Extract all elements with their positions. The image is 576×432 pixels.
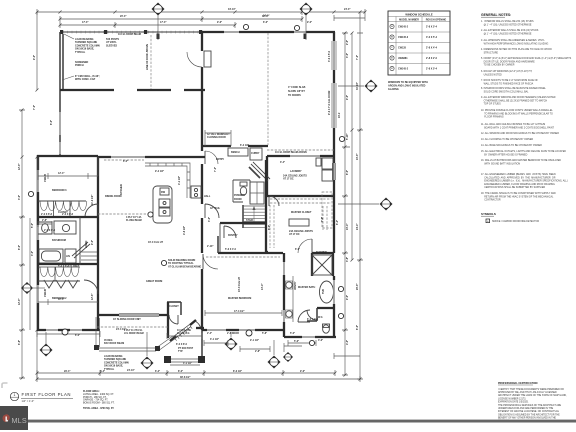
svg-text:2'-0 X 6'-8: 2'-0 X 6'-8 xyxy=(44,229,56,232)
svg-text:5'-4": 5'-4" xyxy=(100,370,105,373)
svg-text:OBLIGATION IS ASSUMED BY T: OBLIGATION IS ASSUMED BY THE ARCHITECT F… xyxy=(498,413,560,416)
svg-text:CW145: CW145 xyxy=(44,173,47,182)
master bath shower xyxy=(312,253,333,276)
svg-text:13'-4": 13'-4" xyxy=(261,284,264,291)
svg-text:DOOR STYLE, DOOR FINISH AND HA: DOOR STYLE, DOOR FINISH AND HARDWARE xyxy=(481,60,535,63)
extra short dim lines xyxy=(38,130,360,359)
svg-text:7'-2": 7'-2" xyxy=(214,167,217,172)
laundry door arc xyxy=(269,196,279,206)
svg-text:OTHERWISE SHALL BE (2) 2X10 FR: OTHERWISE SHALL BE (2) 2X10 FRAMED SET T… xyxy=(481,99,547,102)
svg-text:5'-0": 5'-0" xyxy=(290,332,295,335)
svg-text:CW135: CW135 xyxy=(398,47,407,50)
dimension labels left (rotated) xyxy=(18,55,53,305)
svg-text:UNLESS NOTED: UNLESS NOTED xyxy=(481,74,502,76)
freestanding tub xyxy=(320,281,334,303)
svg-text:6'-0": 6'-0" xyxy=(295,248,300,251)
porch bottom wall xyxy=(60,89,205,91)
wall between bed3 and bath xyxy=(38,216,98,218)
svg-text:DINING ROOM: DINING ROOM xyxy=(105,195,121,198)
svg-text:STRUCTURE: STRUCTURE xyxy=(481,52,498,54)
svg-text:W.C.: W.C. xyxy=(318,316,324,319)
svg-text:KITCHEN: KITCHEN xyxy=(120,184,123,195)
svg-text:ARGON AND LOW-E INSULATED: ARGON AND LOW-E INSULATED xyxy=(388,85,426,88)
column note bottom xyxy=(104,355,129,371)
master bedroom top wall xyxy=(218,252,333,254)
window schedule table xyxy=(388,11,450,75)
svg-text:5'-8": 5'-8" xyxy=(262,332,267,335)
svg-text:SMOKE / CARBON MONOXIDE DETECT: SMOKE / CARBON MONOXIDE DETECTOR xyxy=(492,220,539,223)
svg-text:ENGINEERED LUMBER, FLOOR FRAMI: ENGINEERED LUMBER, FLOOR FRAMING AND ROO… xyxy=(481,183,555,186)
dimension labels bottom xyxy=(62,328,305,379)
linen closet xyxy=(65,249,76,263)
svg-text:CW145: CW145 xyxy=(44,288,47,297)
window labels on plan xyxy=(44,173,239,335)
bath/bed2 dividing wall xyxy=(38,263,98,265)
svg-text:9'-6": 9'-6" xyxy=(300,370,305,373)
svg-text:CUBBY: CUBBY xyxy=(251,152,260,155)
garage right wall with windows xyxy=(332,32,336,157)
master closet door xyxy=(298,239,312,253)
master bedroom ceiling dashed xyxy=(206,256,280,258)
svg-text:CW145-3: CW145-3 xyxy=(398,36,409,39)
svg-text:6'-8": 6'-8" xyxy=(18,340,21,345)
svg-text:17'-0": 17'-0" xyxy=(82,21,89,24)
section marker bottom 1 xyxy=(40,344,53,357)
svg-text:SHOWER: SHOWER xyxy=(316,251,327,254)
angled pantry double doors xyxy=(249,162,270,181)
svg-text:FIRST FLOOR PLAN: FIRST FLOOR PLAN xyxy=(22,392,72,397)
keynote circle right wall a xyxy=(338,286,343,291)
keynote circle right wall b xyxy=(338,313,343,318)
section marker bedroom 2 xyxy=(21,282,33,294)
svg-text:3'-0": 3'-0" xyxy=(31,251,34,256)
svg-text:12'-4": 12'-4" xyxy=(58,298,65,301)
svg-text:WINDOWS TO BE EQUIPPED WITH: WINDOWS TO BE EQUIPPED WITH xyxy=(388,81,428,84)
bedroom 3 door xyxy=(85,204,98,217)
svg-text:2'-6": 2'-6" xyxy=(346,40,349,45)
svg-text:11'-2 1/2": 11'-2 1/2" xyxy=(91,195,94,205)
svg-text:5'-0": 5'-0" xyxy=(31,223,34,228)
svg-text:12. ALL WINDOW AND DOOR MOULDI: 12. ALL WINDOW AND DOOR MOULDINGS TO BE … xyxy=(481,132,559,135)
svg-text:5'-6": 5'-6" xyxy=(294,340,299,343)
door: porch to garage xyxy=(187,51,211,67)
svg-text:17'-0": 17'-0" xyxy=(160,21,167,24)
svg-text:9'-6": 9'-6" xyxy=(33,55,36,60)
svg-text:4'-1 1/2": 4'-1 1/2" xyxy=(178,176,181,185)
svg-text:10. PROVIDE DOUBLE FLOOR JOIST: 10. PROVIDE DOUBLE FLOOR JOISTS UNDER WA… xyxy=(481,109,553,112)
hall door to great room xyxy=(205,204,219,218)
svg-text:4'-0 X 5'-4: 4'-0 X 5'-4 xyxy=(426,36,438,39)
svg-text:6'-0 X 8'-0: 6'-0 X 8'-0 xyxy=(176,343,188,346)
professional certification body xyxy=(498,388,567,423)
svg-text:2'-8 X 2'-0: 2'-8 X 2'-0 xyxy=(426,57,438,60)
svg-text:POWDER: POWDER xyxy=(234,194,245,197)
keynote circle bottom 1 xyxy=(62,329,68,335)
svg-text:TYP: TYP xyxy=(178,350,183,353)
stair closet xyxy=(250,182,264,204)
svg-text:TO FRAMING AND BLOCKING AT WAL: TO FRAMING AND BLOCKING AT WALLS PERPEND… xyxy=(481,112,553,115)
svg-text:9'-0 X 7'-0 O.H. DOOR: 9'-0 X 7'-0 O.H. DOOR xyxy=(328,90,331,115)
section marker right side xyxy=(365,80,378,93)
svg-text:INTEREST OF GRAYNE LUCCHESE: INTEREST OF GRAYNE LUCCHESE. NO CONTRACT… xyxy=(498,410,560,413)
svg-text:LINE OF ROOF ABOVE: LINE OF ROOF ABOVE xyxy=(146,44,149,70)
master bedroom left wall xyxy=(201,269,203,330)
leader lines porch xyxy=(62,34,74,80)
svg-text:24'-10": 24'-10" xyxy=(127,369,135,372)
svg-text:CLOSET: CLOSET xyxy=(169,305,179,308)
svg-text:24'-4": 24'-4" xyxy=(356,224,359,231)
svg-text:2. ALL EXTERIOR WALLS SHALL BE: 2. ALL EXTERIOR WALLS SHALL BE 2X6 (24) … xyxy=(481,29,539,32)
svg-text:FLOOR FRAMING: FLOOR FRAMING xyxy=(481,116,504,119)
svg-text:CERTIFICATIONS SHALL BE SUBMIT: CERTIFICATIONS SHALL BE SUBMITTED BY SUP… xyxy=(481,186,545,189)
pantry walls xyxy=(220,222,265,224)
svg-text:WITH SOUND BATT INSULATION: WITH SOUND BATT INSULATION xyxy=(481,162,520,165)
dimension line: bottom overall xyxy=(37,331,360,382)
svg-text:7'-2": 7'-2" xyxy=(356,55,359,60)
svg-text:BY OWNER AFTER HOUSE IS FRAMED: BY OWNER AFTER HOUSE IS FRAMED xyxy=(481,153,528,156)
ovens xyxy=(191,186,201,198)
svg-text:20'-0": 20'-0" xyxy=(356,284,359,291)
svg-text:8. INTERIOR DOORS SHALL BE MAS: 8. INTERIOR DOORS SHALL BE MASONITE RAIS… xyxy=(481,87,547,90)
svg-text:VANITY: VANITY xyxy=(294,281,297,290)
garage note text xyxy=(288,86,306,97)
keynote circle left xyxy=(28,191,33,196)
keynote circle top b xyxy=(294,25,299,30)
svg-text:BONUS ROOM - 380 SQ. FT.: BONUS ROOM - 380 SQ. FT. xyxy=(83,401,115,404)
svg-text:LIN: LIN xyxy=(66,255,70,258)
garage bottom wall / mudroom top xyxy=(202,145,268,147)
svg-text:6'-0": 6'-0" xyxy=(123,160,128,163)
svg-text:BENEFIT OF ANY OTHER PERSO: BENEFIT OF ANY OTHER PERSON INVOLVED IN … xyxy=(498,416,556,419)
svg-text:MASTER BATH: MASTER BATH xyxy=(298,286,315,289)
svg-text:GENERAL NOTES:: GENERAL NOTES: xyxy=(481,13,511,17)
svg-text:8'-0": 8'-0" xyxy=(178,370,183,373)
svg-text:SOLID CORE SMOOTH (COLONIAL),: SOLID CORE SMOOTH (COLONIAL), BAL xyxy=(481,90,529,93)
svg-text:MLS: MLS xyxy=(12,416,27,425)
svg-text:9'-1 1/2": 9'-1 1/2" xyxy=(250,339,259,342)
svg-text:PROFESSIONAL CERTIFICATION: PROFESSIONAL CERTIFICATION xyxy=(498,382,538,385)
svg-text:AWN281: AWN281 xyxy=(398,57,408,60)
svg-text:9'-6": 9'-6" xyxy=(91,240,94,245)
hall west wall xyxy=(201,147,203,253)
svg-text:2'-4": 2'-4" xyxy=(207,332,212,335)
svg-text:18. THE CRAWL SPACE IS TO BE C: 18. THE CRAWL SPACE IS TO BE CONDITIONED… xyxy=(481,192,556,195)
svg-text:5'-6 X 4'-0: 5'-6 X 4'-0 xyxy=(225,248,237,251)
svg-text:STAIR: STAIR xyxy=(246,219,253,222)
svg-text:ARCHITECT UNDER THE LAWS OF TH: ARCHITECT UNDER THE LAWS OF THE STATE OF… xyxy=(498,394,567,397)
entry hall left wall xyxy=(167,302,169,338)
sheet bottom border xyxy=(28,420,576,423)
svg-text:11. ALL WALL AND CEILING FINIS: 11. ALL WALL AND CEILING FINISHES TO BE … xyxy=(481,123,545,126)
master bath right wall xyxy=(333,196,335,338)
window schedule note xyxy=(388,81,428,91)
svg-text:10'-4": 10'-4" xyxy=(346,224,349,231)
svg-text:2'-8 X 5'-4: 2'-8 X 5'-4 xyxy=(426,26,438,29)
svg-text:42" RAIL: 42" RAIL xyxy=(210,207,221,210)
master bedroom bottom wall xyxy=(202,329,284,331)
powder room xyxy=(233,180,250,202)
svg-text:TYPICAL: TYPICAL xyxy=(75,51,86,54)
dimension labels top xyxy=(82,8,351,24)
bath door xyxy=(298,310,310,322)
svg-text:MODEL NUMBER: MODEL NUMBER xyxy=(399,18,419,21)
porch notes xyxy=(75,38,119,81)
svg-text:8'-6": 8'-6" xyxy=(50,120,53,125)
porch left CMU wall xyxy=(60,32,63,92)
bedroom wing left wall with windows xyxy=(37,156,39,330)
svg-text:MASTER CLOSET: MASTER CLOSET xyxy=(291,211,312,214)
master bedroom right wall xyxy=(283,253,285,337)
master bath bottom wall xyxy=(284,336,336,338)
section marker A1 top left xyxy=(152,3,165,16)
svg-text:2'-8 X 4'-4: 2'-8 X 4'-4 xyxy=(426,47,438,50)
svg-text:12'-6": 12'-6" xyxy=(91,294,94,301)
section marker bottom 4 xyxy=(268,356,281,369)
svg-text:SYMBOLS: SYMBOLS xyxy=(481,212,496,216)
staircase xyxy=(243,160,266,252)
drop beam dashed over kitchen xyxy=(267,149,334,151)
svg-text:4'-8 1/2": 4'-8 1/2" xyxy=(183,226,186,235)
bathtub xyxy=(39,249,63,263)
mudroom bench and cubbys xyxy=(228,148,262,160)
svg-text:4'-2": 4'-2" xyxy=(346,340,349,345)
svg-text:29'-4": 29'-4" xyxy=(64,370,71,373)
svg-text:ROOM: ROOM xyxy=(234,198,241,201)
great room door note xyxy=(168,259,201,268)
dimension line: overall width top xyxy=(37,9,365,28)
svg-text:16'-0 CLG HT: 16'-0 CLG HT xyxy=(148,241,163,244)
svg-text:3'-6": 3'-6" xyxy=(208,217,211,222)
bedroom 2 bifold doors xyxy=(44,280,78,288)
bedroom wing top wall xyxy=(37,155,98,157)
svg-text:2'-10": 2'-10" xyxy=(207,245,214,248)
dashed line of bonus room in garage xyxy=(267,33,269,145)
svg-text:11 X 9 CLG: 11 X 9 CLG xyxy=(177,332,190,335)
svg-text:ENGINEERED LUMBER (i.e. ILVL: ENGINEERED LUMBER (i.e. ILVL MANUFACTURE… xyxy=(481,180,568,183)
svg-text:3'-0 X 5'-0: 3'-0 X 5'-0 xyxy=(328,50,331,62)
bathroom door (angled) xyxy=(72,242,88,256)
svg-text:3'-0": 3'-0" xyxy=(18,195,21,200)
svg-text:AT 17 OC: AT 17 OC xyxy=(289,233,300,236)
svg-text:3'-0": 3'-0" xyxy=(346,53,349,58)
svg-text:PANTRY: PANTRY xyxy=(228,234,238,237)
svg-text:14. ALL BASE MOULDINGS TO BE C: 14. ALL BASE MOULDINGS TO BE CHOSEN BY O… xyxy=(481,144,542,147)
svg-text:MASTER BEDROOM: MASTER BEDROOM xyxy=(228,297,251,300)
svg-text:7'-0": 7'-0" xyxy=(33,105,36,110)
svg-text:12'-0": 12'-0" xyxy=(18,299,21,306)
svg-text:5'-0 X 6'-8 CLOSET: 5'-0 X 6'-8 CLOSET xyxy=(58,265,80,268)
svg-text:FLUSH BEAM: FLUSH BEAM xyxy=(126,219,142,222)
svg-text:4'-6": 4'-6" xyxy=(318,339,323,342)
line of bonus room above (dashed) xyxy=(150,35,152,89)
svg-text:ROUGH OPENING: ROUGH OPENING xyxy=(426,18,447,21)
svg-text:8'-0": 8'-0" xyxy=(18,245,21,250)
svg-text:@ 1' - 4" (16), UNLESS NOTED O: @ 1' - 4" (16), UNLESS NOTED OTHERWISE xyxy=(481,24,532,26)
angled front door xyxy=(170,320,201,346)
svg-text:2'-8 X 5'-4: 2'-8 X 5'-4 xyxy=(426,68,438,71)
extra rotated dims right side xyxy=(18,40,359,345)
svg-text:16'-2: 16'-2 xyxy=(338,112,341,118)
svg-text:LINEN: LINEN xyxy=(85,241,88,248)
svg-text:24'-0": 24'-0" xyxy=(263,15,270,18)
svg-text:6'-2 1/2": 6'-2 1/2" xyxy=(240,144,249,147)
master bedroom door xyxy=(203,254,218,269)
svg-text:BEDROOM 3: BEDROOM 3 xyxy=(52,189,67,192)
porch corner posts xyxy=(94,345,99,350)
MLS watermark box xyxy=(0,406,28,430)
dimension labels right (rotated) xyxy=(346,53,359,330)
kitchen upper cabinets dashed xyxy=(104,159,144,161)
section marker right mid xyxy=(380,198,393,211)
svg-text:I CERTIFY THAT THESE DOCUMENTS: I CERTIFY THAT THESE DOCUMENTS WERE PREP… xyxy=(498,388,564,391)
svg-text:34'-10": 34'-10" xyxy=(228,8,236,11)
svg-text:8'-6": 8'-6" xyxy=(356,325,359,330)
section marker bottom 5 xyxy=(283,352,293,362)
keynote circle kitchen xyxy=(243,24,248,29)
svg-text:5'-10": 5'-10" xyxy=(346,134,349,141)
master bath vanity xyxy=(286,276,294,322)
svg-text:3'-8": 3'-8" xyxy=(346,257,349,262)
svg-text:1. INTERIOR WALLS SHALL BE 2X: 1. INTERIOR WALLS SHALL BE 2X4 (16) STUD… xyxy=(481,20,534,23)
laundry washer/dryer xyxy=(316,158,333,181)
svg-text:38'-8 1/2": 38'-8 1/2" xyxy=(180,376,190,379)
svg-text:3. ALL WINDOWS SHALL BE ANDERS: 3. ALL WINDOWS SHALL BE ANDERSEN E-SERIE… xyxy=(481,39,545,42)
laundry room walls xyxy=(265,156,336,196)
porch beam dashed xyxy=(97,326,168,328)
keynote circle bottom 2 xyxy=(246,330,252,336)
mudroom note xyxy=(207,133,230,139)
front entry porch walls xyxy=(164,328,205,365)
svg-text:8'-0": 8'-0" xyxy=(268,225,271,230)
svg-text:SLOPE 1/8"/FT: SLOPE 1/8"/FT xyxy=(288,90,305,93)
svg-text:WALL STUDS TO FINISHED FACE OF: WALL STUDS TO FINISHED FACE OF FASCIA xyxy=(481,82,534,85)
symbols legend: smoke detector xyxy=(486,219,539,223)
interior wall: wing corridor xyxy=(97,157,99,330)
drawing title: first floor plan xyxy=(10,392,73,403)
extra bottom labels xyxy=(100,332,323,373)
svg-text:16 LVL DROP BEAM ABOVE: 16 LVL DROP BEAM ABOVE xyxy=(275,151,307,154)
bathroom fixtures xyxy=(38,221,76,234)
svg-text:TUB: TUB xyxy=(322,289,325,294)
svg-text:24'-0": 24'-0" xyxy=(344,8,351,11)
svg-text:7'-0": 7'-0" xyxy=(321,217,324,222)
svg-text:6'-0 X 4'-0: 6'-0 X 4'-0 xyxy=(307,318,319,321)
svg-text:9'-6": 9'-6" xyxy=(346,95,349,100)
screened porch top wall with posts xyxy=(60,30,202,34)
svg-text:3'-4": 3'-4" xyxy=(280,161,285,164)
svg-text:9'-6": 9'-6" xyxy=(217,21,222,24)
svg-text:2'-0 X 6'-8: 2'-0 X 6'-8 xyxy=(41,213,53,216)
bedroom 3 closet xyxy=(38,201,87,216)
svg-text:2'-8": 2'-8" xyxy=(255,350,260,353)
garage left wall xyxy=(201,32,203,147)
extra interior dimension labels xyxy=(31,144,324,372)
svg-text:10'-0": 10'-0" xyxy=(356,154,359,161)
porch-to-wing left wall xyxy=(59,92,61,157)
svg-text:2'-8": 2'-8" xyxy=(42,219,47,222)
keynote circle bottom 3 xyxy=(309,340,314,345)
svg-text:3'-1 1/2": 3'-1 1/2" xyxy=(210,338,219,341)
svg-text:UNDERTAKEN FOR AND ARE PERFOR: UNDERTAKEN FOR AND ARE PERFORMED IN THE xyxy=(498,407,554,410)
svg-text:4" CONC SLAB: 4" CONC SLAB xyxy=(288,86,306,89)
svg-text:TO DOORS: TO DOORS xyxy=(288,94,301,97)
svg-text:CALCULATED AND APPROVED BY: CALCULATED AND APPROVED BY THE MANUFACTU… xyxy=(481,176,556,179)
faint logo mark above box xyxy=(2,383,8,388)
svg-text:CW145-2: CW145-2 xyxy=(398,26,409,29)
flush beam dashed xyxy=(98,212,153,222)
svg-text:9'-0": 9'-0" xyxy=(346,295,349,300)
svg-text:LAUNDRY: LAUNDRY xyxy=(290,170,302,173)
svg-text:LVL ROOF BEAM: LVL ROOF BEAM xyxy=(124,332,144,335)
dimension line: right vertical xyxy=(342,12,363,379)
svg-text:10'-0 CLG HT: 10'-0 CLG HT xyxy=(238,277,241,292)
keynote circle laundry xyxy=(339,136,344,141)
svg-text:5. FRONT (9'-0") & (8'-0") ENT: 5. FRONT (9'-0") & (8'-0") ENTRANCE DOOR… xyxy=(481,57,572,60)
svg-text:PORCH: PORCH xyxy=(75,64,84,67)
svg-text:16 LVL DROP BEAM: 16 LVL DROP BEAM xyxy=(118,33,141,36)
svg-text:APPROVED BY ME, AND THAT I AM: APPROVED BY ME, AND THAT I AM A DULY LIC… xyxy=(498,391,557,394)
pantry door arc xyxy=(224,226,236,238)
svg-text:AT GLULAM BEAM BEARING: AT GLULAM BEAM BEARING xyxy=(168,265,201,268)
svg-text:20'-0": 20'-0" xyxy=(120,15,127,18)
svg-text:12'-0": 12'-0" xyxy=(18,164,21,171)
entry door arcs xyxy=(205,151,218,164)
svg-text:CONTRACTOR: CONTRACTOR xyxy=(481,199,501,202)
svg-text:4. DIMENSIONS NOTED ON THIS PL: 4. DIMENSIONS NOTED ON THIS PLAN ARE TO … xyxy=(481,48,552,51)
svg-text:BATHROOM: BATHROOM xyxy=(52,239,66,242)
svg-text:1/4" = 1'-0": 1/4" = 1'-0" xyxy=(22,399,35,403)
svg-text:17. ALL ENGINEERED LUMBER (BEA: 17. ALL ENGINEERED LUMBER (BEAMS AND JOI… xyxy=(481,173,556,176)
svg-text:EXPIRATION DATE 1/5/2025.: EXPIRATION DATE 1/5/2025. xyxy=(498,400,529,403)
bedroom 2 door xyxy=(84,280,98,294)
svg-text:4'-1 1/2": 4'-1 1/2" xyxy=(183,362,192,365)
general notes body xyxy=(481,20,572,202)
svg-text:8'-6 1/2": 8'-6 1/2" xyxy=(233,370,242,373)
dimension line: left vertical xyxy=(19,12,37,379)
entry closet xyxy=(167,302,181,324)
svg-text:16' SLIDING DOOR UNIT: 16' SLIDING DOOR UNIT xyxy=(113,318,141,321)
svg-text:BAY ROOF BEAM: BAY ROOF BEAM xyxy=(104,342,124,345)
kitchen island xyxy=(153,186,172,223)
covered porch slab edge xyxy=(96,317,176,351)
svg-text:9'-2 1/2": 9'-2 1/2" xyxy=(155,170,164,173)
garage top wall with windows xyxy=(202,31,335,33)
svg-text:16. WALLS AT BATHROOMS AND MAS: 16. WALLS AT BATHROOMS AND MASTER BEDROO… xyxy=(481,159,561,162)
water closet xyxy=(307,308,335,333)
svg-text:WINDOW SCHEDULE: WINDOW SCHEDULE xyxy=(405,13,433,17)
wall tick below section line xyxy=(304,34,307,40)
dimension tick slashes xyxy=(21,11,367,381)
svg-text:TOTAL AREA - 3760 SQ. FT.: TOTAL AREA - 3760 SQ. FT. xyxy=(83,407,115,410)
svg-text:SLEEVES: SLEEVES xyxy=(106,44,117,47)
section marker bottom 2 xyxy=(141,357,154,370)
svg-text:LICENSE NUMBER 12173,: LICENSE NUMBER 12173, xyxy=(498,398,526,400)
svg-text:CW145-2: CW145-2 xyxy=(398,68,409,71)
master closet xyxy=(265,192,332,252)
svg-text:GLAZING: GLAZING xyxy=(388,88,399,91)
svg-text:TYPICAL: TYPICAL xyxy=(104,368,115,371)
svg-text:6'-4": 6'-4" xyxy=(336,220,339,225)
svg-text:CLOSET: CLOSET xyxy=(58,211,68,214)
great room south wall with slider xyxy=(99,313,168,316)
svg-text:WITH CONC. CAP: WITH CONC. CAP xyxy=(75,78,96,81)
svg-text:1: 1 xyxy=(14,393,16,397)
svg-text:7. ROOF SOFFITS TO BE 1'-0" NO: 7. ROOF SOFFITS TO BE 1'-0" NOM FROM FAC… xyxy=(481,79,538,82)
svg-text:THE PROFESSIONAL SERVICES O: THE PROFESSIONAL SERVICES OF THE ARCHITE… xyxy=(498,404,562,407)
svg-text:WITH HIGH PERFORMANCE LOW-E IN: WITH HIGH PERFORMANCE LOW-E INSULATING G… xyxy=(481,42,548,45)
svg-text:9'-0": 9'-0" xyxy=(307,21,312,24)
svg-text:6. ROUGH UP WINDOWS (12'-0") A: 6. ROUGH UP WINDOWS (12'-0") AT (6'-10")… xyxy=(481,70,533,73)
